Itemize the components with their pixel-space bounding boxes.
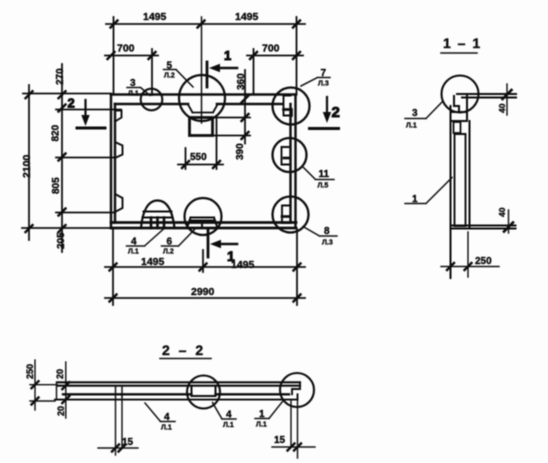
detail circle 8 (bottom right) bbox=[273, 197, 309, 233]
svg-text:20: 20 bbox=[55, 369, 65, 379]
top wall (plan, top rib) bbox=[111, 95, 296, 105]
slab middle thick line bbox=[63, 393, 289, 395]
left chain dim line bbox=[61, 64, 63, 252]
extension for 700 left bbox=[151, 49, 153, 95]
slab bottom line bbox=[55, 399, 298, 401]
dim 15 bottom left bbox=[116, 396, 123, 455]
PLAN DIMENSIONS bbox=[21, 11, 305, 305]
section mark 1 (top): thick trace, arrow, label bbox=[206, 62, 209, 87]
left dim 20/20 bbox=[65, 362, 67, 418]
opening reveal funnel below top wall bbox=[188, 105, 218, 113]
extension line left bbox=[113, 17, 115, 93]
tick bbox=[111, 21, 301, 28]
svg-text:700: 700 bbox=[117, 43, 135, 55]
svg-text:2100: 2100 bbox=[21, 154, 33, 178]
step detail at x=115 bbox=[116, 386, 123, 400]
detail circle 11 (middle right) bbox=[273, 138, 307, 172]
detail circle 3 in section bbox=[442, 76, 479, 113]
svg-text:2: 2 bbox=[68, 96, 75, 111]
detail circle 6 (bottom middle) bbox=[185, 198, 222, 235]
svg-text:3: 3 bbox=[412, 108, 418, 119]
svg-text:Л.1: Л.1 bbox=[128, 249, 139, 256]
extension line right bbox=[296, 17, 298, 94]
dim 250 bottom bbox=[451, 232, 469, 277]
dim 550 under opening bbox=[178, 164, 223, 166]
slab left end cap bbox=[56, 382, 58, 399]
dim line 700 right bbox=[247, 55, 303, 57]
svg-text:1495: 1495 bbox=[141, 256, 165, 268]
keyway detail in circle 11 bbox=[282, 147, 291, 165]
left wall (plan, left rib) bbox=[111, 95, 115, 229]
PLAN VIEW bbox=[68, 17, 340, 264]
dim 15 bottom right bbox=[291, 400, 298, 458]
horizontal extension lines to left wall bbox=[22, 94, 121, 229]
bottom flange bbox=[451, 226, 516, 229]
svg-text:Л.1: Л.1 bbox=[256, 422, 267, 429]
slab top double line bbox=[57, 382, 300, 385]
svg-text:Л.2: Л.2 bbox=[164, 73, 175, 80]
left dim 250 bbox=[34, 360, 36, 410]
svg-text:270: 270 bbox=[55, 68, 66, 85]
dim 40 bottom right bbox=[508, 210, 510, 233]
keyway pocket in middle bbox=[192, 386, 216, 396]
svg-text:2: 2 bbox=[332, 104, 340, 121]
dim 360/390 vertical at right of opening bbox=[244, 70, 246, 144]
panel core rectangle bbox=[455, 134, 466, 226]
svg-text:820: 820 bbox=[51, 124, 62, 141]
svg-text:2 – 2: 2 – 2 bbox=[162, 342, 206, 358]
keyway trapezoid in circle 6 bbox=[187, 218, 218, 229]
svg-text:250: 250 bbox=[475, 256, 492, 267]
top flange (top rib in section) bbox=[457, 94, 516, 98]
svg-text:550: 550 bbox=[190, 152, 207, 163]
svg-text:1495: 1495 bbox=[235, 11, 259, 23]
svg-text:700: 700 bbox=[262, 43, 280, 55]
svg-text:390: 390 bbox=[235, 143, 246, 160]
keyway detail in circle 8 bbox=[282, 206, 290, 224]
window opening rectangle bbox=[190, 118, 213, 136]
detail circle 5 (big, top middle) bbox=[179, 75, 225, 121]
dim 40 top right bbox=[506, 84, 508, 115]
bottom dim line 1495+1495 bbox=[105, 266, 305, 268]
bottom wall (plan, bottom rib) bbox=[111, 223, 296, 229]
svg-text:Л.1: Л.1 bbox=[223, 422, 234, 429]
svg-text:360: 360 bbox=[236, 73, 247, 90]
wall outer face bbox=[450, 106, 452, 278]
svg-text:40: 40 bbox=[497, 103, 507, 113]
left outer dim 2100 bbox=[28, 85, 30, 240]
right wall (plan, right rib) bbox=[291, 95, 296, 229]
svg-text:Л.1: Л.1 bbox=[406, 123, 417, 130]
svg-text:1: 1 bbox=[224, 48, 231, 63]
svg-text:1 – 1: 1 – 1 bbox=[443, 35, 482, 51]
svg-text:Л.1: Л.1 bbox=[161, 425, 172, 432]
stepped rebate profile at top bbox=[453, 94, 468, 121]
svg-text:Л.1: Л.1 bbox=[128, 91, 139, 98]
detail circle right (2-2) bbox=[280, 373, 314, 407]
svg-text:Л.2: Л.2 bbox=[163, 249, 174, 256]
detail circle 3 (small, top left) bbox=[141, 89, 163, 111]
svg-text:Л.3: Л.3 bbox=[318, 81, 329, 88]
SECTION 1-1 bbox=[405, 35, 516, 278]
keyway detail in circle 7 bbox=[284, 96, 291, 116]
small block under rebate bbox=[454, 122, 461, 133]
bottom extension lines bbox=[113, 229, 297, 305]
left wall keyway notch top bbox=[115, 111, 122, 122]
top dim line 1495+1495 bbox=[106, 23, 305, 25]
svg-text:Л.5: Л.5 bbox=[318, 183, 329, 190]
svg-text:40: 40 bbox=[497, 207, 507, 217]
detail circle 7 (top right) bbox=[273, 88, 310, 125]
svg-text:11: 11 bbox=[319, 169, 330, 180]
svg-text:1495: 1495 bbox=[231, 259, 255, 271]
left wall keyway notch bottom bbox=[115, 194, 123, 212]
left wall keyway notch middle bbox=[115, 142, 123, 158]
svg-text:2990: 2990 bbox=[191, 286, 215, 298]
section mark 1 (bottom): thick trace, arrow, label bbox=[207, 229, 210, 257]
PLAN DETAIL LABELS bbox=[127, 61, 338, 256]
centerline through circle 5 bbox=[201, 17, 203, 123]
svg-text:250: 250 bbox=[25, 364, 35, 379]
svg-text:20: 20 bbox=[56, 406, 66, 416]
svg-text:15: 15 bbox=[122, 437, 134, 448]
lifting loop dome detail bbox=[141, 201, 175, 229]
right end rebate bbox=[292, 382, 300, 399]
svg-text:1495: 1495 bbox=[143, 11, 167, 23]
svg-text:205: 205 bbox=[56, 232, 67, 249]
extension for 700 right bbox=[253, 49, 255, 93]
svg-text:805: 805 bbox=[51, 177, 62, 194]
svg-text:Л.3: Л.3 bbox=[322, 240, 333, 247]
SECTION 2-2 bbox=[25, 342, 315, 458]
wall inner face bbox=[469, 121, 471, 229]
detail circle middle (2-2) bbox=[187, 376, 220, 409]
dim line 700 left bbox=[105, 55, 158, 57]
svg-text:15: 15 bbox=[274, 435, 286, 446]
bottom dim line 2990 bbox=[105, 297, 305, 299]
